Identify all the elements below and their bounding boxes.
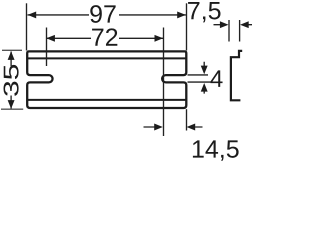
14,5 left arrow (points right) bbox=[154, 124, 163, 131]
14,5 right arrow (points left) bbox=[187, 124, 196, 131]
rail top inner bend line bbox=[28, 57, 187, 59]
dimension text 14,5 bbox=[193, 140, 239, 160]
extension line 97 right / 7,5 left (above rail, right edge) bbox=[186, 3, 188, 50]
extension line 35 bottom bbox=[1, 108, 23, 110]
extension line 35 top bbox=[2, 49, 22, 51]
dimension line 97 (broken by text) bbox=[28, 14, 186, 16]
35 bottom arrow bbox=[8, 100, 15, 109]
72 right arrow bbox=[155, 35, 164, 42]
7,5 right arrow (points left) bbox=[240, 21, 249, 28]
dimension text 35 (rotated) bbox=[4, 65, 19, 96]
dimension 4: arrow shafts bbox=[203, 62, 205, 94]
97 left arrow bbox=[28, 11, 37, 18]
rail bottom inner bend line bbox=[28, 99, 187, 101]
97 right arrow bbox=[177, 11, 186, 18]
rail outline (top view): left edge with open slot, top edge, right edge with open slot, bottom edge bbox=[27, 51, 186, 108]
72 left arrow bbox=[46, 35, 55, 42]
ticks for 7,5 bbox=[229, 20, 240, 42]
dimension text 72 bbox=[92, 28, 117, 45]
extension line 72 left bbox=[46, 28, 48, 67]
extension line 72 right / 14,5 left (crosses rail) bbox=[163, 28, 165, 137]
dimension line 35 (broken by text) bbox=[10, 52, 12, 109]
dimension text 97 bbox=[90, 5, 115, 23]
extension line 14,5 right (below rail, right edge) bbox=[186, 109, 188, 130]
4 top arrow (points down) bbox=[201, 66, 208, 75]
dimension text 4 bbox=[210, 70, 222, 87]
dimension text 7,5 bbox=[188, 2, 220, 22]
arrowheads (filled) bbox=[8, 11, 249, 130]
7,5 left arrow (points right) bbox=[220, 21, 229, 28]
dimension line 72 (broken by text) bbox=[46, 37, 163, 39]
dimension 14,5: arrow shafts bbox=[144, 126, 203, 128]
4 bottom arrow (points up) bbox=[201, 83, 208, 92]
profile section view (top right) bbox=[231, 51, 242, 100]
35 top arrow bbox=[8, 51, 15, 60]
dimension 7,5: arrow shafts bbox=[214, 24, 253, 26]
extension line 97 left (above rail, left edge) bbox=[26, 3, 28, 50]
extension lines for 4 (slot lines extended right) bbox=[188, 75, 211, 82]
